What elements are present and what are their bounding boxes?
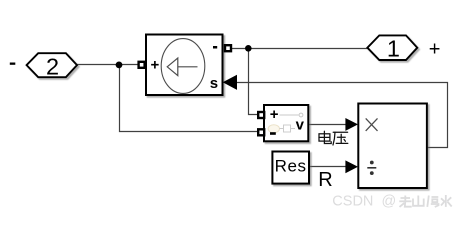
arrowhead into divide / input	[345, 160, 358, 173]
sensor icon faint bottom row	[268, 125, 279, 133]
svg-text:@: @	[382, 193, 397, 209]
wire junction2 down to sensor - port	[120, 65, 260, 132]
wire divide output to s input	[232, 83, 448, 148]
wire sensor v output to divide x input	[308, 124, 350, 126]
wire junction1 down to sensor + port	[249, 49, 260, 115]
sensor icon faint top row	[280, 114, 299, 116]
sensor - label	[270, 132, 276, 135]
output port 2 hexagon	[27, 53, 77, 77]
output port 1 hexagon	[367, 35, 417, 60]
arrowhead into divide x input	[345, 118, 358, 131]
wire source - port to hexagon1	[229, 48, 368, 50]
watermark char 停	[427, 196, 429, 207]
voltage measurement block	[264, 105, 308, 141]
Res constant block	[272, 152, 309, 184]
multiply symbol	[366, 118, 378, 130]
svg-text:R: R	[318, 169, 332, 191]
watermark char 水	[445, 195, 447, 207]
current source arrow	[178, 66, 198, 68]
wire Res output to divide input	[309, 166, 350, 168]
svg-text:s: s	[210, 75, 218, 92]
svg-text:CSDN: CSDN	[332, 193, 373, 209]
junction dot top	[245, 45, 252, 52]
wire hexagon2 to source + port	[77, 64, 141, 66]
svg-text:2: 2	[46, 53, 59, 79]
svg-text:+: +	[270, 106, 279, 123]
svg-text:v: v	[296, 117, 305, 134]
svg-text:1: 1	[387, 35, 400, 61]
svg-text:Res: Res	[275, 157, 307, 176]
sensor + port square	[258, 112, 264, 118]
label 电压	[319, 131, 348, 145]
divide symbol	[367, 161, 376, 175]
watermark char 山	[417, 196, 419, 206]
sensor - port square	[258, 129, 264, 135]
junction dot left	[116, 62, 123, 69]
source + port square	[139, 62, 145, 68]
svg-text:+: +	[429, 38, 441, 60]
current source circle	[161, 39, 205, 94]
divide block	[358, 104, 427, 189]
watermark char 走	[404, 196, 406, 202]
controlled current source block	[146, 35, 223, 96]
- label of source	[213, 46, 217, 49]
s input arrowhead	[223, 75, 237, 90]
minus polarity label for port 2	[10, 63, 16, 65]
svg-text:+: +	[151, 57, 160, 74]
source - port square	[225, 45, 231, 51]
